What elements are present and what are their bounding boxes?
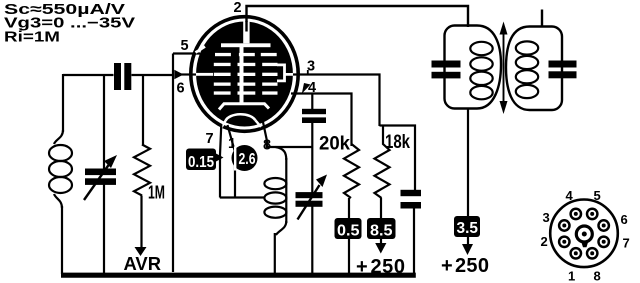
meter 2.6 xyxy=(232,145,258,171)
box 0.15 measurement xyxy=(186,149,216,171)
T1 secondary coil xyxy=(516,41,538,98)
svg-text:7: 7 xyxy=(623,236,630,251)
svg-text:0.15: 0.15 xyxy=(188,154,214,171)
inductor L2 (oscillator coil) xyxy=(264,147,286,235)
wire pin 8 xyxy=(263,122,312,147)
tube U1 screen bracket to pin 3 xyxy=(277,65,295,81)
socket pin 5 xyxy=(587,209,597,219)
resistor R1 1M xyxy=(134,145,150,196)
tube U1 beam plate bar xyxy=(219,104,269,110)
svg-text:2: 2 xyxy=(541,234,548,249)
wire grid-line from C1 to tube pins 5/6 xyxy=(63,74,173,76)
wire cathode to coil tap xyxy=(220,196,265,198)
svg-text:3: 3 xyxy=(543,210,550,225)
svg-text:2: 2 xyxy=(234,0,242,16)
variable capacitor CV1 xyxy=(85,169,116,176)
wire pin 1 down xyxy=(228,125,236,198)
svg-text:6: 6 xyxy=(621,212,628,227)
socket pin 4 xyxy=(571,209,581,219)
wire L1 bottom to bus xyxy=(61,206,63,274)
tube U1 internal lead to pin 2 xyxy=(243,21,249,43)
tube U1 cathode dome xyxy=(226,114,256,121)
wire 1M branch xyxy=(142,75,144,145)
wire CV1 bottom to bus xyxy=(103,184,105,274)
ground bus xyxy=(61,273,416,278)
socket pin 8 xyxy=(587,248,597,258)
wire 18k node to decoupling cap xyxy=(380,126,416,191)
tube U1 pin5 internal lead xyxy=(196,47,206,53)
svg-text:1: 1 xyxy=(568,269,575,283)
socket pin 7 xyxy=(599,237,609,247)
wire oscillator tank vertical xyxy=(311,94,313,110)
svg-text:4: 4 xyxy=(566,188,574,203)
socket pin 3 xyxy=(559,220,569,230)
wire C2 to CV2 xyxy=(311,122,313,193)
wire pin 7 down xyxy=(220,124,221,198)
socket pin 6 xyxy=(599,220,609,230)
svg-text:1M: 1M xyxy=(148,183,165,203)
arrow 0.15 to pin7 wire xyxy=(216,154,224,162)
resistor R3 18k xyxy=(375,126,390,198)
arrow to +250 (left) xyxy=(375,243,386,254)
wire C3 to bus xyxy=(413,208,415,274)
svg-text:5: 5 xyxy=(594,188,601,203)
wire variable cap branch xyxy=(103,75,105,169)
wire R1 to AVR arrow xyxy=(140,196,142,249)
T1 tuning arrow (variable coupling) xyxy=(503,32,505,104)
tube U1 envelope xyxy=(191,17,298,132)
resistor R2 20k xyxy=(344,144,359,198)
wire pin 5 xyxy=(173,52,200,54)
wire T1 secondary output stub xyxy=(541,10,543,27)
svg-text:6: 6 xyxy=(177,81,185,97)
T1 primary coil xyxy=(470,42,492,100)
tube U1 anode bar xyxy=(221,43,271,47)
IF transformer T1 left can xyxy=(445,26,502,109)
svg-text:8.5: 8.5 xyxy=(370,223,393,240)
box 0.5 measurement xyxy=(335,218,362,239)
wire T1 primary to +250 xyxy=(467,109,469,247)
IF transformer T1 right can xyxy=(506,27,562,111)
svg-text:+ 250: + 250 xyxy=(441,255,489,277)
socket pin 2 xyxy=(559,237,569,247)
tube U1 center electrode bar xyxy=(240,46,244,104)
box 8.5 measurement xyxy=(367,218,396,239)
svg-text:8: 8 xyxy=(594,269,601,283)
node junction vertical (pins 5/6 tie) xyxy=(172,54,174,273)
svg-text:2.6: 2.6 xyxy=(239,151,256,168)
inductor L1 (antenna coil) xyxy=(49,130,72,208)
svg-text:0.5: 0.5 xyxy=(337,223,360,240)
wire pin 6 with arrow xyxy=(180,73,196,75)
arrow to +250 (right) xyxy=(462,244,473,255)
box 3.5 measurement xyxy=(454,216,480,237)
wire pin 3 to 18k xyxy=(293,75,380,127)
tube socket base outline xyxy=(550,200,618,268)
tube U1 pin6 internal lead xyxy=(196,73,213,76)
variable capacitor CV2 xyxy=(296,192,323,198)
socket center spigot with key xyxy=(576,226,592,242)
capacitor C2 (osc coupling) xyxy=(302,109,326,114)
capacitor C1 (coupling, top-left) xyxy=(114,63,121,90)
capacitor C3 (decoupling) xyxy=(401,190,422,196)
tube U1 cathode internal leads xyxy=(222,120,262,127)
wire R3 to +250 arrow xyxy=(380,198,382,245)
T1 primary tuning capacitor xyxy=(432,61,461,68)
socket pin 1 xyxy=(571,248,581,258)
wire pin 2 to transformer xyxy=(247,6,469,27)
svg-text:Ri=1M: Ri=1M xyxy=(4,29,60,46)
wire left branch down xyxy=(62,74,64,132)
svg-text:3.5: 3.5 xyxy=(457,220,479,237)
svg-text:AVR: AVR xyxy=(124,253,162,274)
wire CV2 to bus xyxy=(311,206,313,274)
T1 secondary tuning capacitor xyxy=(549,61,577,68)
tube U1 grid rows (dashed) xyxy=(214,53,278,95)
wire pin 4 to 20k xyxy=(291,94,352,147)
svg-text:5: 5 xyxy=(181,38,189,54)
wire L2 bottom to bus xyxy=(274,233,276,274)
svg-text:7: 7 xyxy=(206,131,214,147)
svg-text:20k: 20k xyxy=(319,134,350,155)
wire R2 to bus xyxy=(348,198,350,274)
